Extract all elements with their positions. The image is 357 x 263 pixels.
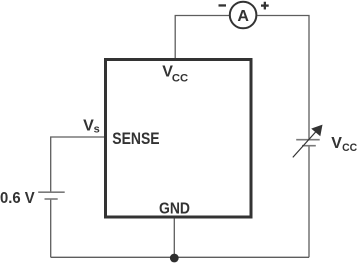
svg-text:s: s (94, 123, 100, 135)
svg-text:GND: GND (159, 200, 190, 217)
svg-text:SENSE: SENSE (112, 129, 159, 148)
svg-text:CC: CC (172, 73, 188, 85)
svg-text:CC: CC (342, 142, 357, 154)
svg-text:V: V (331, 135, 342, 152)
svg-text:0.6 V: 0.6 V (0, 190, 35, 207)
svg-text:V: V (83, 117, 94, 134)
svg-text:A: A (237, 8, 249, 25)
